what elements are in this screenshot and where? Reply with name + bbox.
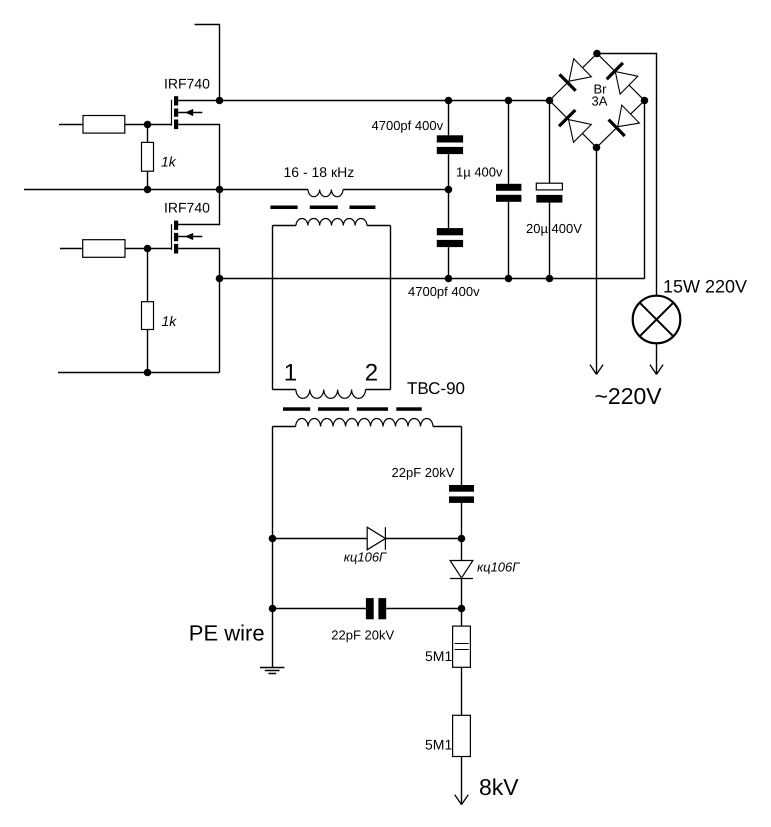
junction: Q2 gate node: [144, 245, 152, 253]
lamp 15W 220V: [633, 296, 681, 344]
inductor: feedback winding: [308, 190, 343, 197]
diode D1 kc106G (horizontal): [367, 527, 385, 550]
svg-text:1µ 400v: 1µ 400v: [456, 164, 503, 179]
node: bridge bottom vertex: [593, 144, 601, 152]
svg-text:кц106Г: кц106Г: [477, 559, 520, 574]
wire: bottom-left source rail: [58, 372, 220, 374]
wire: top drain rail: [178, 100, 549, 102]
bridge rectifier Br 3A: [550, 54, 645, 148]
svg-text:8kV: 8kV: [479, 774, 519, 800]
transistor Q1 IRF740 (upper): [172, 96, 203, 129]
transistor Q2 IRF740 (lower): [172, 221, 203, 254]
junction: 1k upper to mid rail: [144, 186, 152, 194]
diode bridge top-left: [560, 59, 592, 91]
junction: C2 to center rail: [445, 275, 453, 283]
wire: mid rail (right part): [343, 189, 449, 191]
svg-text:4700pf 400v: 4700pf 400v: [408, 284, 480, 299]
svg-text:2: 2: [365, 360, 378, 387]
svg-text:1k: 1k: [161, 153, 177, 169]
capacitor C4 20u 400V (electrolytic): [536, 101, 562, 279]
svg-text:кц106Г: кц106Г: [344, 549, 387, 564]
svg-text:16 - 18 кHz: 16 - 18 кHz: [284, 164, 355, 180]
junction: rail to secondary left leg: [269, 535, 277, 543]
capacitor C5 22pF 20kV (right, vertical): [449, 485, 474, 539]
wire: bridge right vertex down to center rail: [644, 101, 646, 279]
diode D2 kc106G (vertical): [450, 539, 473, 609]
svg-text:20µ 400V: 20µ 400V: [526, 221, 582, 236]
svg-text:22pF 20kV: 22pF 20kV: [392, 465, 455, 480]
svg-text:22pF 20kV: 22pF 20kV: [331, 628, 394, 643]
junction: C3 to center rail: [505, 275, 513, 283]
svg-text:PE wire: PE wire: [189, 621, 265, 646]
junction: C3 to top rail: [505, 97, 513, 105]
resistor gate R (lower): [83, 240, 125, 258]
transformer primary winding (bottom scallops): [296, 390, 366, 399]
diode bridge bottom-right: [609, 105, 640, 136]
wire: secondary right leg: [461, 427, 463, 486]
diode bridge top-right: [607, 63, 638, 94]
wire: Q1 source to mid rail: [178, 125, 219, 190]
transformer core (upper dashes): [270, 206, 375, 210]
node: bridge left vertex: [546, 97, 554, 105]
junction: mid rail to C1/C2: [445, 186, 453, 194]
capacitor C2 4700pf 400v (lower): [437, 190, 463, 279]
transformer primary outline (box): [273, 226, 391, 390]
svg-text:1: 1: [284, 360, 297, 387]
wire: lower secondary rail: [273, 608, 462, 610]
junction: Q1 gate node: [144, 121, 152, 129]
svg-text:1k: 1k: [162, 313, 178, 329]
svg-text:~220V: ~220V: [595, 383, 663, 409]
junction: C1 to top rail: [445, 97, 453, 105]
transformer secondary winding (scallops): [296, 419, 433, 427]
node: bridge right vertex: [641, 97, 649, 105]
junction: lower rail to right leg: [458, 605, 466, 613]
junction: 1k lower to bottom rail: [144, 369, 152, 377]
resistor 1k (upper): [142, 125, 154, 190]
resistor R5 5M1 (upper): [453, 609, 471, 716]
svg-text:IRF740: IRF740: [164, 200, 210, 216]
junction: Q1 drain / top rail: [216, 97, 224, 105]
wire: center tap rail: [220, 278, 645, 280]
wire: gate R to Q1 gate: [125, 124, 172, 126]
resistor 1k (lower): [142, 249, 154, 373]
svg-text:IRF740: IRF740: [164, 76, 210, 92]
wire: bridge bottom to ~220V arrow: [596, 148, 598, 375]
wire: secondary left leg down to ground: [272, 427, 274, 668]
wire: bridge top to lamp: [597, 54, 657, 296]
svg-text:4700pf 400v: 4700pf 400v: [372, 118, 444, 133]
wire: gate R to Q2 gate: [125, 248, 172, 250]
resistor gate R (upper): [83, 116, 125, 134]
wire: gate input (lower): [60, 248, 83, 250]
junction: rail to right leg: [458, 535, 466, 543]
wire: mid rail (left part): [24, 189, 308, 191]
wire: lamp to ~220V arrow: [656, 343, 658, 374]
arrow: 8kV output: [455, 795, 469, 805]
wire: Q2 source down to bottom rail: [178, 249, 219, 373]
svg-text:ТВС-90: ТВС-90: [407, 379, 465, 398]
arrow: ~220V (right): [650, 365, 663, 375]
junction: lower rail to left leg: [269, 605, 277, 613]
arrow: ~220V (left): [590, 365, 603, 375]
ground symbol: [260, 668, 284, 674]
capacitor C6 22pF 20kV (horizontal): [366, 598, 386, 619]
resistor R6 5M1 (lower): [453, 715, 471, 804]
wire: secondary top edge ends: [273, 426, 462, 428]
wire: upper secondary rail: [273, 538, 462, 540]
transformer primary winding (top scallops): [296, 219, 367, 226]
capacitor C3 1u 400v: [496, 101, 521, 279]
svg-text:15W 220V: 15W 220V: [663, 277, 747, 297]
junction: C4 to center rail: [546, 275, 554, 283]
wire: Q2 drain to mid rail: [178, 190, 219, 225]
wire: top supply feed: [195, 25, 220, 101]
diode bridge bottom-left: [559, 110, 591, 142]
wire: gate input (upper): [59, 124, 83, 126]
svg-text:5M1: 5M1: [425, 648, 452, 664]
junction: Q2 source to center tap rail: [216, 275, 224, 283]
junction: Q1 source / Q2 drain on mid rail: [216, 186, 224, 194]
svg-text:3A: 3A: [592, 93, 608, 108]
transformer core (lower dashes): [283, 407, 422, 411]
svg-text:5M1: 5M1: [425, 737, 452, 753]
capacitor C1 4700pf 400v (upper): [437, 101, 463, 190]
node: bridge top vertex: [593, 50, 601, 58]
